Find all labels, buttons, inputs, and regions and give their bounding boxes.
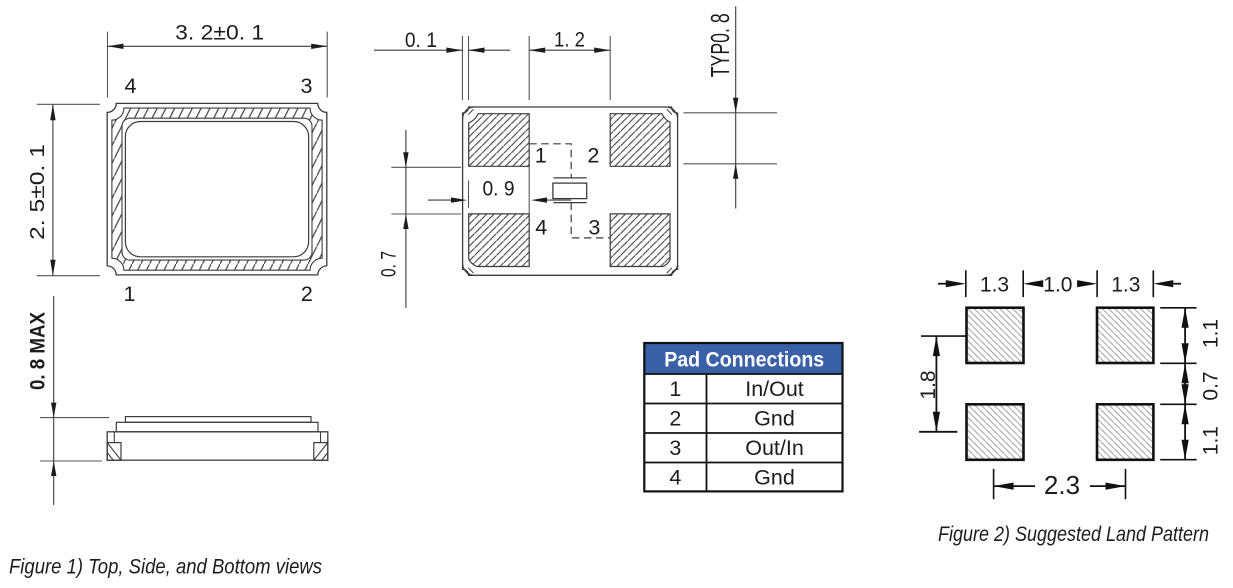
dimension 0.1 (pad edge offset) <box>374 29 510 100</box>
table grid lines <box>644 374 842 491</box>
svg-text:1.3: 1.3 <box>1111 273 1140 296</box>
dimension 0.7 (pad row gap) <box>378 130 462 308</box>
svg-text:1.0: 1.0 <box>1043 273 1072 296</box>
svg-text:1.3: 1.3 <box>980 273 1009 296</box>
svg-text:3: 3 <box>588 217 600 240</box>
dimension 2.3 (land pads horizontal pitch) <box>994 469 1126 500</box>
svg-text:0.7: 0.7 <box>1200 371 1223 400</box>
dimension 1.3 / 1.0 / 1.3 (land pads horizontal) <box>938 270 1181 297</box>
svg-text:3: 3 <box>669 436 681 460</box>
svg-text:1: 1 <box>669 377 681 401</box>
svg-text:2: 2 <box>301 283 313 306</box>
svg-text:4: 4 <box>535 217 547 240</box>
svg-text:1.8: 1.8 <box>917 370 940 399</box>
svg-text:0. 7: 0. 7 <box>378 251 401 277</box>
dimension 1.2 (pad gap) <box>529 29 610 101</box>
pad 4 (bottom view, hatched) <box>469 214 530 267</box>
svg-text:1: 1 <box>535 145 547 168</box>
svg-text:2.3: 2.3 <box>1044 470 1080 500</box>
land pad top-right <box>1097 308 1153 363</box>
svg-text:Gnd: Gnd <box>754 407 795 431</box>
side view left pad <box>107 443 121 461</box>
dimension 1.8 (land pads vertical pitch) <box>917 336 966 432</box>
side view lid middle step <box>116 422 318 432</box>
top view lid outline <box>125 122 308 257</box>
dimension 1.1 / 0.7 / 1.1 (land pads vertical) <box>1160 308 1222 460</box>
dimension 0.8 MAX (side height) <box>27 296 110 505</box>
table header background <box>644 343 842 374</box>
top view package outer outline <box>107 103 327 275</box>
svg-text:2: 2 <box>587 145 599 168</box>
svg-text:4: 4 <box>125 75 137 98</box>
svg-text:Pad Connections: Pad Connections <box>664 349 824 372</box>
svg-text:1. 2: 1. 2 <box>554 29 585 52</box>
svg-text:Out/In: Out/In <box>745 436 804 460</box>
bottom view corner castellation arcs <box>463 107 678 275</box>
svg-text:2: 2 <box>669 407 681 431</box>
svg-text:Figure 2) Suggested Land Patte: Figure 2) Suggested Land Pattern <box>938 523 1209 546</box>
svg-text:3: 3 <box>301 75 313 98</box>
table row 1 <box>669 377 803 401</box>
svg-text:0. 8 MAX: 0. 8 MAX <box>27 312 50 390</box>
side view body <box>107 432 328 460</box>
land pad bottom-left <box>967 404 1024 460</box>
svg-text:In/Out: In/Out <box>745 377 804 401</box>
pad 3 (bottom view, hatched) <box>610 214 670 267</box>
dimension 2.5±0.1 (left height) <box>27 104 100 275</box>
svg-text:Gnd: Gnd <box>754 465 795 489</box>
land pad top-left <box>967 308 1024 363</box>
side view lid top step <box>125 417 311 423</box>
dimension TYP0.8 (pad height) <box>683 6 777 208</box>
svg-text:TYP0. 8: TYP0. 8 <box>705 13 735 77</box>
side view castellation ticks <box>114 432 320 443</box>
table row 3 <box>669 436 803 460</box>
svg-text:Figure 1) Top, Side, and Botto: Figure 1) Top, Side, and Bottom views <box>9 556 322 579</box>
pad 2 (bottom view, hatched) <box>610 114 670 167</box>
svg-text:4: 4 <box>669 465 681 489</box>
dimension 3.2±0.1 (top width) <box>108 22 328 98</box>
bottom view package outline <box>463 107 678 275</box>
table row 4 <box>669 465 794 489</box>
crystal connection dashed wire pad1 to crystal <box>529 144 571 178</box>
land pad bottom-right <box>1097 404 1153 460</box>
dimension 0.9 (pad width) <box>428 166 571 214</box>
svg-text:1.1: 1.1 <box>1200 319 1223 348</box>
svg-text:0. 1: 0. 1 <box>405 29 437 52</box>
table row 2 <box>669 407 794 431</box>
svg-text:1.1: 1.1 <box>1200 426 1223 455</box>
crystal element symbol <box>553 178 587 203</box>
top view seal ring hatch band <box>112 108 322 270</box>
pad 1 (bottom view, hatched) <box>469 114 530 167</box>
crystal connection dashed wire crystal to pad3 <box>571 203 610 238</box>
side view right pad <box>314 443 328 461</box>
svg-text:0. 9: 0. 9 <box>483 178 515 201</box>
svg-text:1: 1 <box>124 283 136 306</box>
svg-text:3. 2±0. 1: 3. 2±0. 1 <box>175 22 264 45</box>
svg-text:2. 5±0. 1: 2. 5±0. 1 <box>27 144 49 240</box>
table outer border <box>644 343 842 491</box>
